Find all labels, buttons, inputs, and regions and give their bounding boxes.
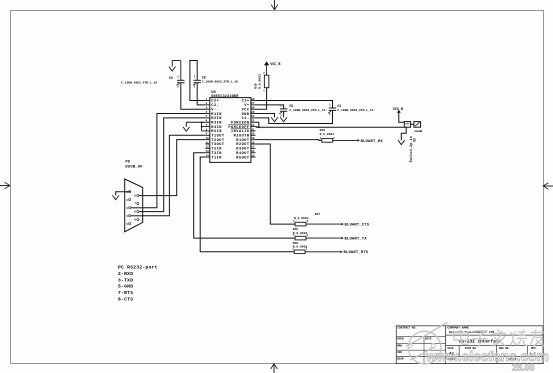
svg-text:11: 11 bbox=[206, 141, 210, 144]
connector P8 DSUB_9F bbox=[125, 179, 143, 232]
wire C4 to C1- bbox=[256, 110, 333, 123]
wire T2OUT to DSUB bbox=[143, 140, 205, 196]
svg-text:C5: C5 bbox=[289, 104, 293, 108]
svg-text:COMPANY NAME: COMPANY NAME bbox=[447, 327, 469, 330]
svg-text:9: 9 bbox=[134, 219, 136, 222]
ground arrow below C5 bbox=[280, 117, 287, 121]
wire DSUB pin8 bbox=[139, 211, 143, 213]
svg-text:6: 6 bbox=[134, 195, 136, 198]
wire R2OUT down bbox=[256, 144, 296, 224]
wire R3IN bus bbox=[186, 121, 205, 123]
net label BLUART_TX bbox=[340, 237, 342, 239]
capacitor C4 bbox=[329, 107, 336, 109]
wire C9 to ground hook bbox=[172, 60, 181, 62]
wire R46 to label bbox=[305, 251, 339, 253]
svg-text:R_0_0603: R_0_0603 bbox=[293, 232, 308, 235]
capacitor C9 bbox=[177, 79, 184, 81]
switch pin line right bbox=[415, 130, 421, 132]
svg-text:1: 1 bbox=[177, 76, 179, 79]
wire T3IN loop bbox=[194, 153, 295, 238]
left centre mark bbox=[0, 185, 10, 187]
svg-text:R_0_0603: R_0_0603 bbox=[293, 246, 308, 249]
svg-text:C9: C9 bbox=[169, 76, 173, 80]
wire R39 to VCC pin bbox=[256, 88, 267, 110]
svg-text:26: 26 bbox=[251, 107, 255, 110]
svg-text:5: 5 bbox=[126, 223, 128, 226]
svg-text:1: 1 bbox=[263, 90, 265, 93]
svg-text:13: 13 bbox=[206, 150, 210, 153]
wire R4IN stub bbox=[202, 126, 206, 128]
svg-text:8: 8 bbox=[134, 211, 136, 214]
wire C8 to C2- bbox=[197, 83, 205, 105]
wire R45 to label bbox=[306, 237, 340, 239]
wire to left gnd bbox=[185, 122, 187, 127]
svg-text:C_100N_0603_X7R_L_16: C_100N_0603_X7R_L_16 bbox=[121, 81, 157, 84]
wire switch to ground bbox=[401, 127, 406, 140]
svg-text:22: 22 bbox=[251, 124, 255, 127]
svg-text:2: 2 bbox=[280, 115, 282, 118]
svg-text:28: 28 bbox=[251, 98, 255, 101]
bottom centre mark bbox=[273, 364, 275, 373]
svg-text:BLUART_CTS: BLUART_CTS bbox=[345, 224, 370, 228]
junction dot bus b bbox=[201, 126, 203, 128]
svg-text:15: 15 bbox=[251, 154, 255, 157]
svg-text:C_100N_0603_X7R_L_16: C_100N_0603_X7R_L_16 bbox=[289, 109, 325, 112]
right centre mark bbox=[544, 185, 553, 187]
svg-text:1: 1 bbox=[329, 104, 331, 107]
wire T1OUT to DSUB bbox=[143, 135, 205, 216]
svg-text:2: 2 bbox=[177, 86, 179, 89]
net label BLUART_RTS bbox=[339, 251, 341, 253]
wire T1IN loop bbox=[200, 157, 294, 252]
svg-text:18: 18 bbox=[251, 141, 255, 144]
svg-text:DATE: DATE bbox=[425, 338, 432, 341]
svg-text:21: 21 bbox=[251, 128, 255, 131]
svg-text:25: 25 bbox=[251, 111, 255, 114]
svg-text:C4: C4 bbox=[337, 104, 341, 108]
svg-text:2: 2 bbox=[333, 137, 335, 140]
wire C5 to ground bbox=[283, 111, 285, 117]
svg-text:R40: R40 bbox=[320, 129, 326, 132]
wire R2IN from DSUB bbox=[143, 118, 205, 212]
svg-text:CONTRACT NO.: CONTRACT NO. bbox=[398, 327, 417, 330]
ground arrow above C9 bbox=[169, 67, 176, 71]
wire R47 to label bbox=[306, 223, 340, 225]
svg-text:3-TXD: 3-TXD bbox=[118, 277, 133, 283]
svg-text:4: 4 bbox=[126, 215, 128, 218]
svg-text:C8: C8 bbox=[202, 75, 206, 79]
svg-text:PC RS232-port: PC RS232-port bbox=[118, 265, 158, 271]
svg-text:BLUART_RTS: BLUART_RTS bbox=[344, 251, 369, 255]
svg-text:R45: R45 bbox=[293, 228, 299, 231]
wire R1OUT to R40 bbox=[256, 139, 322, 142]
svg-text:27: 27 bbox=[251, 102, 255, 105]
capacitor C8 bbox=[194, 79, 201, 81]
wire GND pin25 bbox=[256, 114, 275, 118]
svg-text:20: 20 bbox=[251, 133, 255, 136]
svg-text:16: 16 bbox=[251, 150, 255, 153]
resistor R46 bbox=[294, 250, 305, 254]
svg-text:R_0_0603: R_0_0603 bbox=[257, 74, 261, 89]
wire VCC_B to switch bbox=[399, 112, 405, 122]
svg-text:Switch-2p.in: Switch-2p.in bbox=[409, 136, 413, 163]
svg-text:2: 2 bbox=[307, 220, 309, 223]
svg-text:2-RXD: 2-RXD bbox=[118, 271, 133, 277]
svg-text:2: 2 bbox=[329, 113, 331, 116]
svg-text:R46: R46 bbox=[293, 242, 299, 245]
top centre mark bbox=[274, 0, 276, 10]
resistor R45 bbox=[295, 236, 306, 240]
wire C1+ to C4 bbox=[256, 101, 333, 109]
svg-text:VCC_B: VCC_B bbox=[270, 63, 280, 67]
resistor R47 bbox=[295, 222, 306, 226]
svg-text:P8: P8 bbox=[125, 161, 130, 165]
svg-text:7: 7 bbox=[134, 203, 136, 206]
svg-text:7-RTS: 7-RTS bbox=[118, 290, 133, 296]
svg-text:2: 2 bbox=[194, 86, 196, 89]
power symbol VCC_B bbox=[264, 61, 269, 65]
wire DSUB pin6 bbox=[139, 195, 143, 197]
resistor R40 bbox=[322, 139, 333, 143]
svg-text:SN65C3243DBR: SN65C3243DBR bbox=[211, 95, 239, 99]
svg-text:10: 10 bbox=[206, 137, 210, 140]
wire DSUB pin1 to ground bbox=[116, 192, 131, 196]
wire R40 to label bbox=[333, 139, 356, 141]
svg-text:C_100N_0603_X7R_L_16: C_100N_0603_X7R_L_16 bbox=[202, 81, 238, 84]
wire FORCEOFF pin22 long bbox=[256, 126, 405, 129]
wire DSUB pin3 TXD bbox=[131, 207, 143, 209]
resistor R39 bbox=[264, 75, 269, 88]
svg-text:12: 12 bbox=[206, 146, 210, 149]
svg-text:C_100N_0603_X7R_L_16: C_100N_0603_X7R_L_16 bbox=[337, 109, 373, 112]
wire FORCEON pin23 bbox=[256, 122, 259, 127]
svg-text:R_0_0603: R_0_0603 bbox=[320, 133, 335, 136]
wire DSUB pin4 bbox=[131, 215, 143, 217]
bus vertical bbox=[201, 122, 203, 131]
svg-text:2: 2 bbox=[126, 199, 128, 202]
wire R5IN stub bbox=[202, 130, 206, 132]
junction dot bbox=[258, 126, 260, 128]
wire VCC_B to R39 bbox=[266, 65, 268, 75]
svg-text:1: 1 bbox=[194, 76, 196, 79]
svg-text:8-CTS: 8-CTS bbox=[118, 296, 133, 302]
title block bbox=[396, 326, 543, 364]
watermark elecfans bbox=[408, 331, 441, 364]
junction dot bus a bbox=[201, 121, 203, 123]
svg-text:BLUART_RX: BLUART_RX bbox=[361, 140, 384, 144]
wire V+ to C5 bbox=[256, 105, 284, 109]
svg-text:24: 24 bbox=[251, 115, 255, 118]
svg-text:R_0_0603: R_0_0603 bbox=[294, 217, 309, 220]
net label BLUART_CTS bbox=[340, 223, 342, 225]
wire C2+ to C8 top bbox=[190, 61, 205, 101]
switch S3 bbox=[404, 122, 410, 128]
svg-text:DSGN: DSGN bbox=[397, 358, 404, 361]
svg-text:BLUART_TX: BLUART_TX bbox=[345, 238, 368, 242]
IC U3 SN65C3243DBR bbox=[210, 98, 251, 163]
svg-text:14: 14 bbox=[206, 154, 210, 157]
svg-text:R47: R47 bbox=[315, 213, 321, 216]
capacitor C5 bbox=[280, 108, 287, 110]
svg-text:17: 17 bbox=[251, 146, 255, 149]
svg-text:DRW: DRW bbox=[397, 344, 402, 347]
svg-text:5-GND: 5-GND bbox=[118, 284, 133, 290]
svg-text:19: 19 bbox=[251, 137, 255, 140]
svg-text:28.00: 28.00 bbox=[512, 363, 535, 373]
net label BLUART_RX bbox=[356, 139, 358, 141]
ground arrow pin25 bbox=[271, 117, 278, 121]
svg-text:3: 3 bbox=[126, 207, 128, 210]
ground arrow R-in bus bbox=[183, 127, 190, 131]
svg-text:APPD: APPD bbox=[397, 338, 404, 341]
svg-text:23: 23 bbox=[251, 120, 255, 123]
svg-text:CHK: CHK bbox=[397, 351, 402, 354]
svg-text:DSUB_9F: DSUB_9F bbox=[125, 166, 143, 170]
wire V- to C9 bbox=[181, 83, 206, 109]
svg-text:T1IN: T1IN bbox=[211, 156, 222, 160]
svg-text:R5OUT: R5OUT bbox=[236, 156, 250, 160]
ground arrow switch bbox=[398, 140, 405, 144]
ground arrow DSUB bbox=[112, 195, 119, 199]
wire R1IN from DSUB bbox=[143, 114, 205, 208]
